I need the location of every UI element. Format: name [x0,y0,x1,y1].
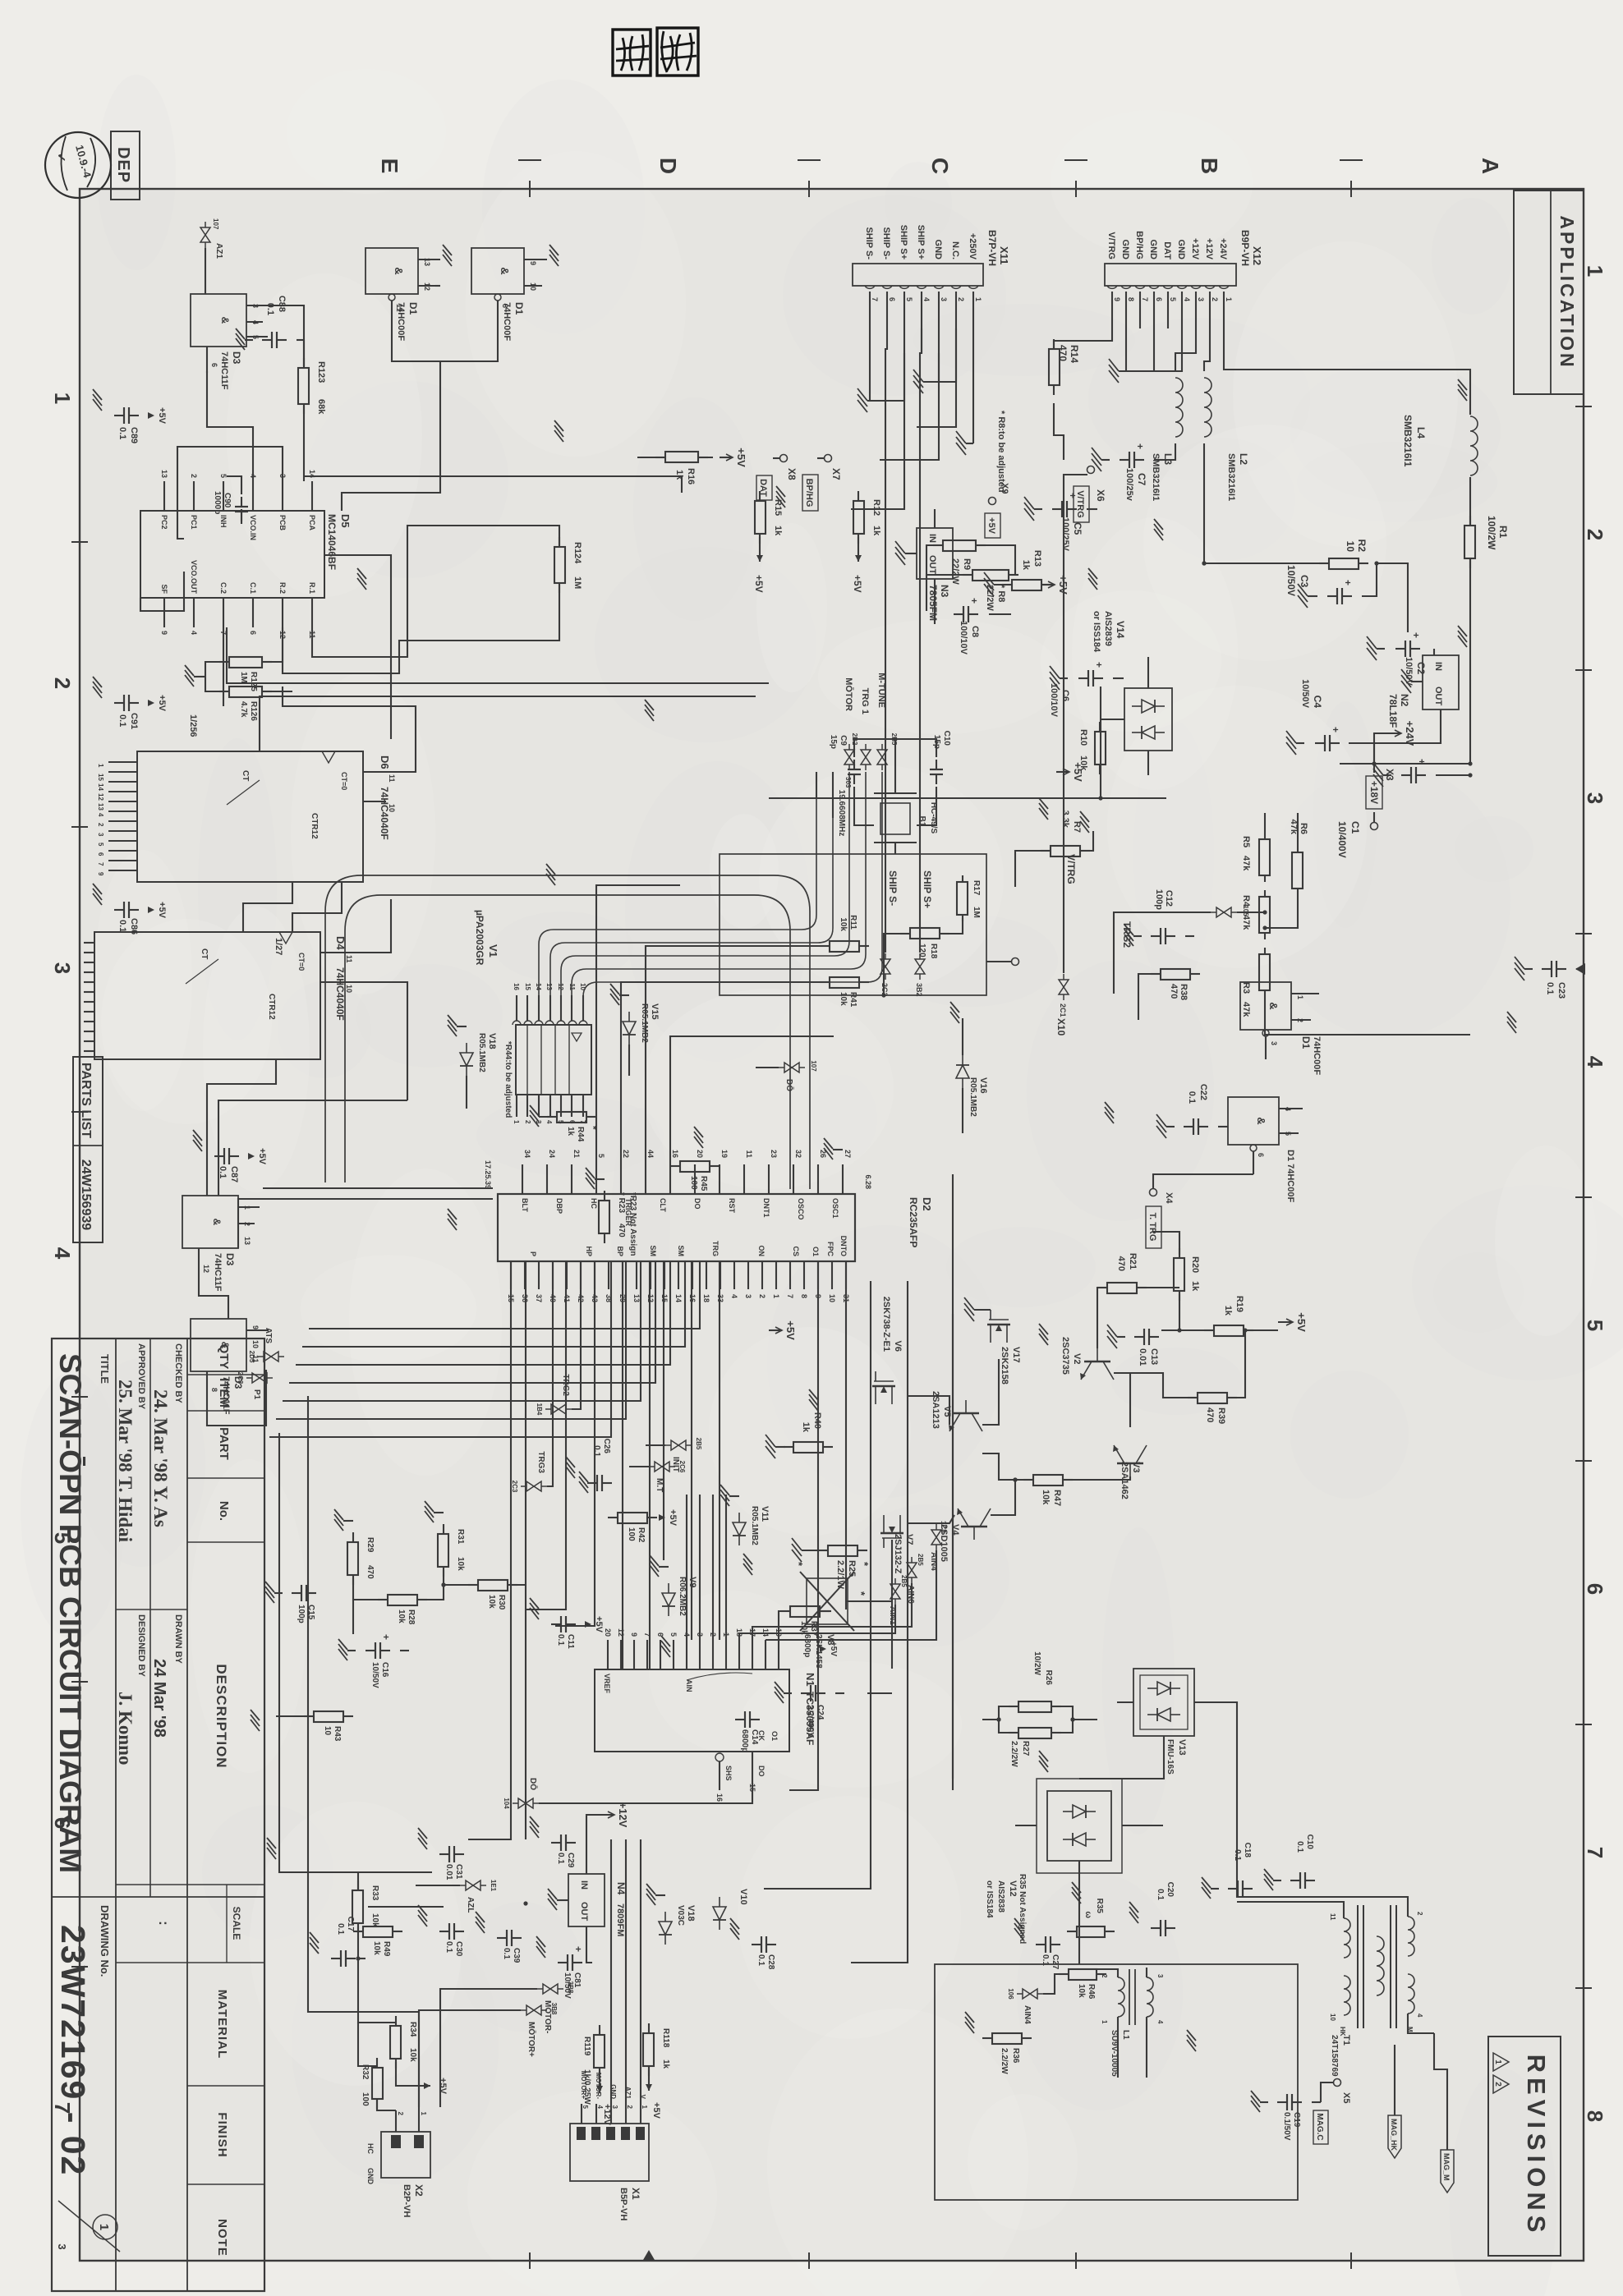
svg-text:R05.1MB2: R05.1MB2 [640,1003,649,1043]
svg-text:12: 12 [97,793,104,801]
svg-text:470: 470 [1169,984,1179,999]
svg-text:R44: R44 [576,1127,585,1142]
svg-text:11: 11 [251,1355,260,1363]
svg-text:OUT: OUT [579,1902,589,1922]
wire long rail F [555,1261,595,1626]
svg-text:✓: ✓ [55,153,68,163]
capacitor C13 0.01 [1149,1336,1159,1338]
svg-text:0.1: 0.1 [1156,1889,1165,1900]
svg-text:3: 3 [940,297,948,301]
svg-text:R.1: R.1 [308,582,316,594]
svg-text:+24V: +24V [1218,238,1228,260]
svg-text:R29: R29 [366,1537,375,1553]
bowtie AIN4 out [1017,1989,1043,1999]
svg-text:6: 6 [656,1632,664,1637]
resistor R5 47k [1264,833,1266,839]
wire r8r9 [926,545,968,575]
svg-text:16: 16 [715,1793,724,1802]
svg-text:0.1: 0.1 [1295,1841,1304,1853]
svg-text:R124: R124 [572,542,582,564]
svg-text:1: 1 [420,2112,427,2116]
svg-text:+5V: +5V [1295,1312,1308,1332]
svg-text:+5V: +5V [1072,762,1084,782]
wire out link 5 [1622,0,1623,1]
svg-text:+5V: +5V [668,1509,678,1527]
svg-text:CS: CS [792,1246,800,1256]
wire long rail E [622,1261,623,1669]
svg-text:6: 6 [1257,1153,1265,1157]
capacitor C39 0.1 [512,1937,522,1939]
svg-text:47k: 47k [1241,856,1251,871]
resistor R33 10k [357,1880,359,1890]
svg-text:25. Mar '98 T. Hidai: 25. Mar '98 T. Hidai [115,1380,136,1543]
ic V1 uPA2003GR [516,1025,591,1095]
wire d6 comb bus [1622,0,1623,1]
svg-text:106: 106 [1007,1988,1014,2000]
svg-text:47k: 47k [1241,915,1251,930]
svg-text:A: A [1478,158,1503,174]
svg-text:100: 100 [689,1176,698,1190]
margin stamp scribble 1 [657,28,698,76]
wire v1 left feeds [832,772,834,818]
svg-text:C9: C9 [839,735,848,746]
wire rail y1134 [691,1261,692,1640]
svg-text:R21: R21 [1128,1253,1138,1270]
svg-text:23: 23 [770,1150,778,1158]
wire osc 5 [670,1036,834,1164]
svg-text:1k: 1k [661,2060,670,2069]
svg-text:24: 24 [548,1150,556,1158]
svg-text:IN: IN [579,1880,589,1890]
svg-text:TRG2: TRG2 [1121,921,1133,948]
svg-text:10: 10 [828,1294,836,1302]
svg-text:CT: CT [200,948,209,959]
svg-text:T. TRG: T. TRG [1147,1213,1157,1242]
svg-text:3: 3 [1156,1974,1164,1978]
wire d2 fan [309,1261,700,1329]
svg-text:+12V: +12V [617,1802,629,1828]
svg-text:V7: V7 [904,1534,914,1545]
resistor R31 10k [443,1524,444,1534]
svg-text:2: 2 [397,2112,404,2116]
svg-text:RC235AFP: RC235AFP [908,1197,919,1247]
svg-text:INH: INH [219,515,228,528]
svg-text:BP/HG: BP/HG [804,479,814,507]
svg-text:14: 14 [674,1294,683,1302]
resistor R126 4.7k [262,691,272,692]
margin stamp scribble 2 [613,30,651,76]
svg-text:2: 2 [1211,297,1219,301]
svg-text:MŌTOR+: MŌTOR+ [526,2022,536,2057]
svg-text:10/400V: 10/400V [1336,821,1348,858]
svg-text:470: 470 [1057,345,1069,361]
wire feeder bus 1 [227,627,769,683]
wire feeder bus 2 [260,696,756,751]
zener V15 R05.1MB2 [623,1012,636,1045]
capacitor C3 10/50V [1342,595,1352,597]
wire osc loop [720,854,986,995]
svg-text:2SK738-Z-E1: 2SK738-Z-E1 [881,1297,891,1352]
svg-text:4: 4 [922,297,931,301]
svg-text:+24V: +24V [1404,721,1416,746]
svg-text:11: 11 [1329,1913,1336,1921]
resistor R6 47k [1297,846,1299,852]
svg-text:C88: C88 [277,296,287,312]
svg-text:E: E [377,158,402,174]
svg-text:2SJ132-Z: 2SJ132-Z [893,1534,903,1574]
svg-text:+5V: +5V [852,575,863,593]
svg-text:C28: C28 [766,1954,775,1970]
svg-text:0.1/50V: 0.1/50V [1282,2112,1291,2141]
svg-text:PART: PART [217,1427,231,1460]
svg-text:15: 15 [524,983,531,990]
svg-text:2B5: 2B5 [900,1575,908,1587]
svg-text:0.1: 0.1 [756,1954,766,1966]
svg-text:C24: C24 [816,1705,825,1720]
svg-text:SHIP S-: SHIP S- [881,227,891,259]
svg-text:CLT: CLT [659,1198,667,1212]
svg-text:C12: C12 [1164,890,1174,907]
svg-text:1: 1 [1493,2060,1502,2064]
svg-text:PCB: PCB [278,515,287,531]
wire t1 outputs [1434,2033,1447,2150]
svg-text:+5V: +5V [594,1616,604,1633]
svg-text:7: 7 [1583,1847,1607,1858]
capacitor C81 10/50V [572,1962,582,1963]
fet V6 2SK738-Z-E1 [872,1371,895,1404]
svg-text:DRAWN BY: DRAWN BY [173,1614,183,1665]
svg-text:V13: V13 [1177,1739,1187,1756]
capacitor C6 100/10V [1093,677,1103,679]
svg-text:4: 4 [50,1247,75,1260]
terminal X5 MAG.C [1334,2079,1341,2087]
resistor R8 22/2W [1009,574,1018,576]
svg-text:R39: R39 [1216,1407,1226,1424]
svg-text:8: 8 [800,1294,808,1298]
svg-text:100/25v: 100/25v [1124,468,1134,502]
ground symbols misc [1458,379,1467,390]
svg-text:R6: R6 [1299,823,1308,834]
svg-text:10k: 10k [372,1941,381,1955]
svg-text:470: 470 [1205,1407,1215,1422]
svg-text:C26: C26 [602,1439,611,1454]
svg-text:3: 3 [744,1294,752,1298]
svg-text:R118: R118 [661,2028,670,2048]
application box [1514,191,1584,394]
svg-text:R17: R17 [972,880,981,896]
bowtie TRG1 [861,744,871,770]
wire x11 drop b [880,353,939,460]
svg-text:R36: R36 [1011,2048,1020,2064]
svg-text:SHIP S+: SHIP S+ [899,225,908,259]
svg-text:C1: C1 [1349,821,1361,834]
svg-text:No.: No. [217,1501,231,1521]
resistor R26 10/2W [1051,1706,1061,1707]
resistor R13 1k [1041,584,1051,585]
svg-text:V8: V8 [825,1634,835,1645]
svg-text:D3: D3 [232,1376,244,1389]
svg-text:MAG.C: MAG.C [1315,2113,1324,2140]
wire x11 drop a [851,353,904,509]
svg-text:X12: X12 [1251,246,1263,265]
wire logic long 6 [292,882,342,932]
svg-text:N2: N2 [1399,694,1410,707]
svg-text:X6: X6 [1095,489,1106,502]
svg-text:N4: N4 [615,1882,627,1895]
svg-text:C.2: C.2 [219,582,228,594]
svg-text:C89: C89 [129,427,139,443]
svg-text:C22: C22 [1198,1084,1208,1100]
svg-text:1: 1 [772,1294,780,1298]
svg-text:13: 13 [97,803,104,810]
svg-text:APPLICATION: APPLICATION [1556,215,1578,369]
svg-text:303: 303 [844,777,852,788]
svg-text:L2: L2 [1238,453,1249,465]
svg-text:22/2W: 22/2W [950,558,960,585]
svg-text:2: 2 [524,1120,531,1124]
svg-text:AIS2839: AIS2839 [1103,611,1113,646]
svg-text:AIS2838: AIS2838 [996,1880,1005,1913]
svg-text:+12V: +12V [1190,238,1200,260]
wire feeder bus 3 [304,476,682,493]
wire SHIP S+ line [920,328,922,953]
svg-text:MAG_M: MAG_M [1442,2153,1451,2181]
transistor V3 2SA1462 [1113,1445,1147,1476]
svg-text:+12V: +12V [602,2104,612,2126]
ic D2 RC235AFP [498,1194,855,1261]
svg-text:P: P [529,1251,537,1256]
svg-text:FPC: FPC [826,1242,834,1257]
wire bp/hg [817,457,824,459]
svg-text:J. Konno: J. Konno [115,1692,136,1765]
svg-text:5: 5 [219,474,228,478]
svg-text:R.2: R.2 [278,582,287,594]
gate D1 74HC00F a [1240,982,1291,1030]
svg-text:FINISH: FINISH [215,2112,229,2157]
capacitor C86 0.1 [129,909,139,911]
zone ticks top [1575,406,1592,407]
wire d2 logic vert 1 [263,1187,493,1189]
capacitor C29 0.1 [566,1842,576,1844]
svg-text:C3: C3 [1299,575,1310,588]
svg-text:OUT: OUT [927,555,937,575]
wire motor lines [440,1989,537,2107]
resistor R20 1k [1179,1248,1180,1258]
svg-text:DNTO: DNTO [839,1236,848,1256]
svg-text:+: + [1330,727,1341,732]
svg-text:19.6608MHz: 19.6608MHz [837,790,846,837]
svg-text:DO: DO [693,1198,701,1210]
svg-text:CT: CT [241,770,250,781]
svg-text:R31: R31 [456,1529,465,1545]
svg-text:1: 1 [97,2224,111,2230]
svg-text:1: 1 [50,393,75,404]
power +5V gates [1278,1321,1293,1323]
svg-text:TRG 1: TRG 1 [860,688,870,714]
date stamp circle [45,132,111,198]
svg-text:3.3k: 3.3k [1060,810,1070,829]
svg-text:2.2/400V: 2.2/400V [806,1705,815,1738]
svg-text:V3: V3 [1131,1462,1141,1472]
svg-text:C20: C20 [1166,1882,1175,1898]
svg-text:B2P-VH: B2P-VH [402,2184,411,2217]
svg-text:104: 104 [503,1798,510,1809]
svg-text:R2: R2 [1356,540,1368,553]
svg-text:2: 2 [1416,1912,1423,1916]
zone ticks right [1350,2252,1352,2269]
terminal X6 V/TRG [1087,466,1095,474]
inductor L4 SMB3216I1 [1470,416,1478,475]
capacitor C18 0.1 [1243,1888,1253,1890]
resistor R4 47k [1264,890,1266,897]
svg-text:VCO.IN: VCO.IN [249,515,257,540]
svg-text:TITLE: TITLE [99,1354,111,1384]
svg-text:17.25.39: 17.25.39 [484,1160,492,1189]
svg-text:PARTS LIST: PARTS LIST [79,1063,93,1138]
wire v13 v12 r26 [999,1706,1017,1733]
svg-text:0.1: 0.1 [117,920,127,932]
capacitor C88 0.1 [277,339,287,341]
svg-text:µPA2003GR: µPA2003GR [474,910,485,966]
svg-text:107: 107 [810,1060,817,1072]
svg-text:GND: GND [366,2168,375,2185]
wire x1 harness [640,1839,641,2104]
capacitor C16 10/50V [380,1650,390,1651]
svg-text:R1: R1 [1497,526,1509,539]
svg-text:&: & [1255,1117,1267,1124]
gate D1 74HC00F d [366,248,418,294]
svg-text:+5V: +5V [257,1148,267,1165]
svg-text:R28: R28 [407,1609,416,1625]
svg-text:R33: R33 [370,1885,379,1901]
svg-text:O1: O1 [770,1731,779,1741]
svg-text:OSCO: OSCO [797,1198,805,1220]
svg-text:34: 34 [523,1150,531,1158]
resistor R30 10k [508,1584,517,1586]
svg-text:&: & [211,1219,223,1226]
bowtie AZ1 [200,222,210,248]
svg-text:SM: SM [677,1246,685,1257]
svg-text:DESCRIPTION: DESCRIPTION [214,1664,229,1768]
svg-text:V1: V1 [487,944,499,957]
title block outline [52,1339,264,2291]
svg-text:3: 3 [97,833,104,837]
svg-text:TRG3: TRG3 [536,1451,545,1473]
svg-text:11: 11 [388,774,396,783]
svg-text:2: 2 [758,1294,766,1298]
bowtie MOTOR+ b [521,2005,547,2015]
svg-text:SMB3216I1: SMB3216I1 [1226,453,1236,501]
wire long rail A [789,1261,818,1790]
svg-text:6800p: 6800p [740,1729,749,1752]
svg-text:OSC1: OSC1 [831,1198,839,1219]
svg-text:R05.1MB2: R05.1MB2 [477,1033,486,1072]
svg-text:9: 9 [160,631,168,635]
svg-text:+: + [1093,662,1105,668]
svg-text:0.1: 0.1 [1041,1954,1050,1966]
resistor R3 47k [1264,948,1266,954]
svg-text:RST: RST [728,1198,736,1214]
capacitor C24 2.2/400V [816,1692,825,1694]
svg-text:R16: R16 [686,468,696,484]
svg-text:X10: X10 [1055,1018,1067,1036]
resistor R42b 100 [647,1517,657,1518]
svg-text:CTR12: CTR12 [267,994,276,1020]
resistor R27 2.2/2W [1051,1732,1061,1733]
v1 pins [579,1021,587,1025]
svg-text:R38: R38 [1179,984,1189,1000]
gate D1 74HC00F b [1228,1097,1279,1145]
svg-text:V17: V17 [1011,1347,1021,1363]
svg-text:21: 21 [572,1150,581,1158]
svg-text:M-TUNE: M-TUNE [876,673,886,708]
svg-text:R13: R13 [1032,550,1042,567]
svg-text:L4: L4 [1415,427,1427,439]
resistor R12 1k [857,491,859,501]
svg-text:10: 10 [1345,541,1356,553]
svg-text:R20: R20 [1190,1256,1200,1273]
svg-text:2B5: 2B5 [695,1438,702,1450]
svg-text:+250V: +250V [968,233,977,260]
svg-text:74HC4040F: 74HC4040F [334,967,346,1021]
svg-text:V18: V18 [686,1905,696,1922]
svg-text:V15: V15 [650,1003,660,1020]
svg-text:1k: 1k [566,1127,575,1137]
svg-text:D1: D1 [1300,1036,1312,1049]
svg-text:74HC4040F: 74HC4040F [379,787,390,840]
svg-text:2SK2158: 2SK2158 [1000,1347,1009,1384]
svg-text:AIN: AIN [685,1679,693,1692]
svg-text:7: 7 [871,297,879,301]
output filter box [935,1964,1298,2200]
svg-text:10k: 10k [397,1609,406,1623]
svg-text:1M: 1M [572,576,582,589]
wire rail y916 [764,1281,871,1889]
svg-text:C14: C14 [750,1729,759,1745]
svg-text:V03C: V03C [676,1905,685,1926]
wire fan ends [1622,0,1623,1]
svg-text:C.1: C.1 [249,582,257,594]
bowtie 105 [1211,907,1237,917]
svg-text:32: 32 [794,1150,802,1158]
svg-text:1: 1 [1101,2020,1108,2024]
svg-text:4: 4 [190,631,198,635]
svg-text:C5: C5 [1072,522,1083,535]
svg-text:C13: C13 [1149,1348,1159,1365]
wire n3 cluster [934,509,936,528]
capacitor C91 0.1 [129,702,139,704]
svg-text:5: 5 [597,1154,605,1158]
svg-text:100/25V: 100/25V [1060,517,1070,552]
resistor R11 10k [859,945,869,947]
svg-text:6800p: 6800p [802,1634,811,1657]
svg-text:SHS: SHS [724,1766,733,1781]
wire big loop bus [325,875,810,1189]
svg-text:TRIGER: TRIGER [624,1198,632,1227]
svg-text:X3: X3 [1384,769,1395,781]
resistor R46 10k [1097,1973,1106,1975]
svg-text:R3: R3 [1241,982,1251,994]
wire d2 top gnds [1622,0,1623,1]
svg-text:470: 470 [366,1565,375,1579]
svg-text:DAT: DAT [1162,241,1172,259]
svg-text:120: 120 [917,944,926,957]
svg-text:X5: X5 [1341,2092,1351,2103]
svg-text:9: 9 [1113,297,1121,301]
terminal X3 +18V [1366,776,1382,809]
svg-text:D1 74HC00F: D1 74HC00F [1285,1150,1295,1202]
svg-text:V16: V16 [978,1077,988,1094]
